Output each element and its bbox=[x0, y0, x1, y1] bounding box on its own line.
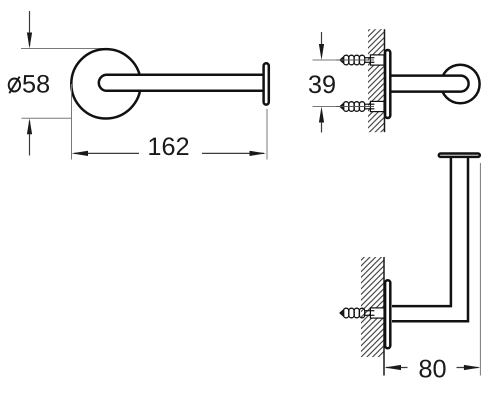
label 80 bbox=[420, 360, 432, 378]
dimension line 80 right segment bbox=[457, 367, 479, 369]
screw S2 (lower) bbox=[336, 101, 384, 111]
label ø58 bbox=[9, 75, 49, 93]
arrowhead 80 left (points left) bbox=[385, 365, 402, 370]
arrowhead 162 right (points right) bbox=[250, 151, 267, 156]
screw S3 bbox=[340, 308, 384, 318]
extension line bottom of ø58 bbox=[22, 117, 73, 119]
wall plate (bottom view) bbox=[385, 280, 390, 348]
dimension line 39 upper segment bbox=[321, 32, 323, 45]
extension line 39 bottom bbox=[313, 106, 385, 108]
arrowhead 162 left (points left) bbox=[72, 151, 89, 156]
screw S1 (upper) bbox=[336, 55, 384, 65]
hatched wall (side view) bbox=[368, 29, 385, 132]
extension line top of ø58 bbox=[21, 48, 104, 50]
dimension line ø58 upper segment bbox=[29, 11, 31, 46]
dimension line 39 lower segment bbox=[321, 122, 323, 133]
label 39 bbox=[309, 75, 321, 93]
bar (side view) bbox=[391, 76, 469, 92]
extension line 162 right bbox=[266, 109, 268, 160]
arrowhead 39 bottom (points up) bbox=[319, 107, 324, 123]
dimension line 80 left segment bbox=[386, 367, 408, 369]
dimension line ø58 lower segment bbox=[29, 121, 31, 156]
wall plate (side view) bbox=[385, 50, 390, 118]
extension line 80 right bbox=[479, 163, 481, 376]
label 162 bbox=[149, 138, 160, 155]
dimension line 162 right segment bbox=[202, 152, 264, 154]
wall rose circle (front) bbox=[71, 49, 140, 118]
extension line 39 top bbox=[313, 59, 385, 61]
hatched wall (bottom view) bbox=[361, 257, 384, 357]
top cap (bottom view) bbox=[439, 154, 480, 157]
extension line 162 left bbox=[71, 84, 73, 160]
holder bar vertical left edge bbox=[392, 157, 451, 307]
end cap disc (side view) bbox=[441, 65, 480, 104]
end cap plate (front) bbox=[264, 63, 269, 104]
arrowhead ø58 top (points down) bbox=[27, 33, 32, 49]
arrowhead 80 right (points right) bbox=[464, 365, 481, 370]
dimension line 162 left segment bbox=[74, 152, 139, 154]
holder bar vertical right edge bbox=[392, 157, 468, 322]
bar (front) bbox=[99, 75, 263, 91]
arrowhead ø58 bottom (points up) bbox=[27, 118, 32, 134]
wall surface / extension line 80 left bbox=[383, 257, 385, 376]
wall surface line (side view) bbox=[384, 29, 386, 132]
arrowhead 39 top (points down) bbox=[319, 44, 324, 60]
